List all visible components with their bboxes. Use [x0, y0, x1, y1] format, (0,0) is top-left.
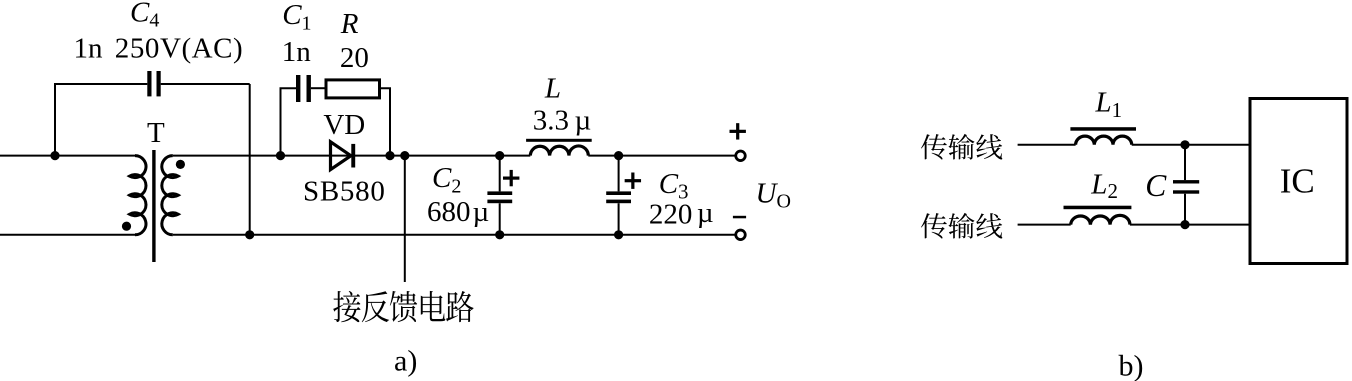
- wire b capacitor vertical: [1184, 145, 1186, 225]
- capacitor C (b): [1173, 180, 1199, 194]
- node dot C2 bottom: [495, 230, 504, 239]
- wire secondary top rail to output: [173, 155, 735, 157]
- svg-text:250V(AC): 250V(AC): [115, 33, 243, 65]
- node dot feedback junction: [400, 151, 409, 160]
- label 接反馈电路: [333, 291, 473, 322]
- output terminal minus circle: [736, 230, 746, 240]
- wire feedback vertical: [404, 156, 406, 282]
- label transmission line bottom: [921, 213, 1002, 239]
- svg-text:VD: VD: [323, 109, 365, 141]
- label output minus: [733, 216, 746, 219]
- node dot b top: [1180, 140, 1189, 149]
- inductor L1 overline: [1070, 127, 1136, 131]
- inductor L1: [1076, 136, 1132, 145]
- svg-text:T: T: [147, 117, 165, 149]
- wire b bottom left: [1018, 224, 1071, 226]
- label transmission line top: [921, 134, 1002, 160]
- svg-text:C4: C4: [130, 0, 159, 32]
- capacitor C2: [487, 191, 512, 203]
- svg-text:L2: L2: [1090, 168, 1118, 203]
- svg-text:SB580: SB580: [303, 176, 385, 208]
- wire top-left rail to primary: [0, 155, 135, 157]
- IC box: [1250, 99, 1347, 264]
- node dot C1 branch left: [276, 151, 285, 160]
- node dot C2 top: [495, 151, 504, 160]
- transformer secondary winding: [162, 156, 178, 235]
- node dot resistor right junction: [385, 151, 394, 160]
- transformer primary polarity dot: [122, 222, 131, 231]
- svg-text:UO: UO: [756, 177, 791, 212]
- inductor L overline: [526, 139, 592, 142]
- svg-text:220: 220: [649, 199, 693, 231]
- inductor L: [530, 146, 588, 156]
- label C2 plus: [503, 170, 519, 186]
- output terminal plus circle: [736, 151, 746, 161]
- wire b bottom right: [1130, 224, 1249, 226]
- diode VD: [331, 142, 356, 170]
- label C3 plus: [625, 173, 641, 189]
- svg-text:680µ: 680µ: [427, 196, 489, 228]
- wire C4 top right segment: [161, 83, 250, 85]
- svg-text:L1: L1: [1095, 87, 1123, 122]
- svg-text:C1: C1: [282, 0, 311, 34]
- svg-text:1n: 1n: [74, 33, 104, 65]
- wire b top left: [1018, 144, 1076, 146]
- capacitor C1: [296, 75, 311, 102]
- wire b top right: [1132, 144, 1249, 146]
- svg-text:IC: IC: [1280, 161, 1315, 200]
- wire resistor right vertical: [381, 88, 390, 155]
- wire C4 left vertical: [55, 84, 147, 156]
- wire C2 vertical: [499, 156, 501, 235]
- wire C1 to resistor: [311, 87, 325, 89]
- transformer T core: [152, 150, 155, 262]
- label output plus: [730, 123, 746, 139]
- svg-text:L: L: [544, 73, 561, 105]
- wire C1 branch left vertical: [281, 88, 297, 155]
- node dot C3 bottom: [614, 230, 623, 239]
- svg-text:µ: µ: [697, 197, 714, 229]
- resistor R: [326, 80, 380, 98]
- transformer secondary polarity dot: [176, 160, 185, 169]
- capacitor C4: [147, 71, 160, 96]
- wire bottom-left rail to primary: [0, 234, 135, 236]
- svg-text:1n: 1n: [282, 36, 312, 68]
- svg-text:20: 20: [340, 42, 369, 74]
- wire C3 vertical: [618, 156, 620, 235]
- node dot C4 right bottom junction: [245, 230, 254, 239]
- node dot C3 top: [614, 151, 623, 160]
- node dot C4 left junction: [50, 151, 59, 160]
- transformer primary winding: [130, 156, 146, 235]
- svg-text:3.3µ: 3.3µ: [533, 105, 591, 137]
- wire C4 right vertical: [249, 84, 251, 235]
- wire bottom rail secondary to output: [173, 234, 735, 236]
- svg-text:C2: C2: [432, 162, 461, 198]
- svg-text:C: C: [1145, 168, 1167, 203]
- inductor L2: [1071, 215, 1130, 224]
- svg-text:R: R: [340, 8, 359, 40]
- inductor L2 overline: [1064, 206, 1132, 210]
- svg-text:a): a): [394, 344, 417, 377]
- node dot b bottom: [1180, 220, 1189, 229]
- svg-text:b): b): [1119, 349, 1144, 381]
- capacitor C3: [606, 191, 631, 203]
